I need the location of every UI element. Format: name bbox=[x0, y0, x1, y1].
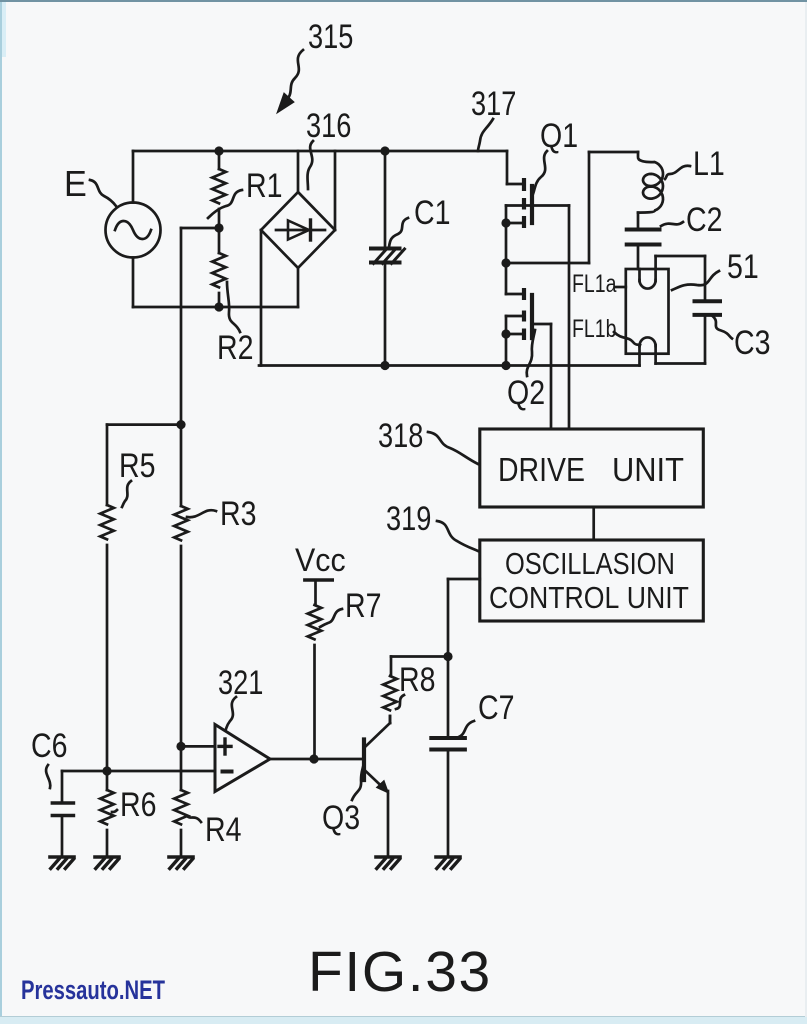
resistor R8 bbox=[383, 676, 397, 710]
inductor L1 bbox=[638, 152, 663, 213]
svg-text:R2: R2 bbox=[217, 329, 253, 367]
svg-text:FIG.33: FIG.33 bbox=[308, 940, 492, 1004]
svg-text:FL1b: FL1b bbox=[572, 315, 616, 343]
node R8-C7 junction bbox=[443, 652, 452, 661]
node Q2 source on rail bbox=[501, 361, 510, 370]
node junction R2 bottom bbox=[214, 302, 223, 311]
svg-text:R5: R5 bbox=[119, 447, 155, 485]
wire bottom rail bbox=[133, 306, 298, 309]
capacitor C6 bbox=[61, 771, 64, 803]
svg-text:Q3: Q3 bbox=[322, 799, 360, 837]
filament FL1a bbox=[638, 269, 641, 281]
svg-text:L1: L1 bbox=[693, 145, 725, 183]
node junction R1-R2 bbox=[214, 223, 223, 232]
svg-text:C1: C1 bbox=[414, 194, 450, 232]
svg-text:C2: C2 bbox=[686, 201, 722, 239]
svg-text:321: 321 bbox=[218, 663, 263, 702]
wire R5 branch bbox=[107, 423, 181, 426]
node junction R1 top bbox=[214, 146, 223, 155]
svg-text:R6: R6 bbox=[120, 786, 156, 824]
ground C6 bbox=[50, 855, 74, 859]
resistor R5 bbox=[100, 505, 114, 539]
svg-text:CONTROL UNIT: CONTROL UNIT bbox=[489, 581, 689, 615]
svg-text:FL1a: FL1a bbox=[572, 270, 617, 298]
svg-text:E: E bbox=[64, 164, 87, 204]
resistor R1 bbox=[218, 151, 221, 169]
op-amp 321 bbox=[215, 725, 270, 792]
ground C7 bbox=[436, 855, 460, 859]
wire node to sense bus bbox=[181, 227, 219, 230]
wire junction to C7 bbox=[447, 657, 450, 739]
svg-text:Q1: Q1 bbox=[540, 117, 578, 155]
svg-text:C3: C3 bbox=[734, 324, 770, 362]
drive unit 318 bbox=[480, 429, 704, 507]
ground Q3 bbox=[376, 855, 400, 859]
wire top rail bbox=[133, 150, 507, 153]
svg-text:319: 319 bbox=[386, 499, 431, 538]
svg-text:DRIVE: DRIVE bbox=[498, 451, 585, 488]
resistor R2 bbox=[218, 228, 221, 253]
node half-bridge midpoint bbox=[501, 258, 510, 267]
node junction C1 top bbox=[380, 146, 389, 155]
node output R7 junction bbox=[309, 754, 318, 763]
wire Q1 gate bus bbox=[568, 206, 571, 430]
svg-text:Vcc: Vcc bbox=[295, 542, 346, 578]
svg-text:317: 317 bbox=[471, 84, 516, 123]
svg-text:315: 315 bbox=[308, 17, 353, 56]
svg-text:316: 316 bbox=[306, 106, 351, 145]
svg-text:318: 318 bbox=[378, 416, 423, 455]
node R5 branch bbox=[176, 420, 185, 429]
ground R6 bbox=[95, 855, 119, 859]
wire source rail bbox=[259, 364, 640, 367]
transistor Q1 bbox=[506, 151, 509, 184]
node C1 bottom bbox=[380, 361, 389, 370]
resistor R4 bbox=[174, 790, 188, 824]
bridge rectifier 316 bbox=[261, 192, 335, 268]
capacitor C3 bbox=[695, 299, 721, 303]
svg-text:R4: R4 bbox=[205, 811, 241, 849]
wire lamp to C3 bbox=[656, 255, 705, 258]
svg-text:Pressauto.NET: Pressauto.NET bbox=[21, 975, 165, 1006]
transistor Q2 bbox=[505, 263, 508, 294]
svg-text:R7: R7 bbox=[345, 587, 381, 625]
wire opamp output bbox=[270, 758, 363, 761]
svg-text:OSCILLASION: OSCILLASION bbox=[505, 547, 675, 582]
resistor R6 bbox=[106, 771, 109, 790]
svg-text:UNIT: UNIT bbox=[612, 451, 684, 488]
svg-text:R8: R8 bbox=[399, 661, 435, 699]
capacitor C2 bbox=[627, 228, 660, 232]
wire sense bus bbox=[180, 425, 183, 506]
node Q1 source lead bbox=[501, 218, 510, 227]
wire FL1b to C3 bbox=[656, 362, 705, 365]
AC source E bbox=[106, 203, 161, 258]
wire midpoint to tank bbox=[506, 262, 589, 265]
svg-text:C7: C7 bbox=[478, 689, 514, 727]
svg-text:R3: R3 bbox=[220, 495, 256, 533]
wire control output bbox=[448, 578, 480, 581]
ground R4 bbox=[169, 855, 193, 859]
capacitor C7 bbox=[431, 736, 465, 740]
resistor R7 bbox=[308, 605, 322, 639]
svg-text:Q2: Q2 bbox=[507, 374, 545, 412]
oscillation control unit 319 bbox=[480, 540, 704, 621]
svg-text:51: 51 bbox=[727, 248, 759, 286]
wire junction to R8 bbox=[391, 655, 448, 658]
node Q2 source lead bbox=[501, 329, 510, 338]
capacitor C1 bbox=[384, 151, 387, 249]
filament FL1b bbox=[638, 345, 641, 366]
svg-text:C6: C6 bbox=[31, 727, 67, 765]
wire bridge to source rail bbox=[260, 230, 263, 366]
wire drive to control bbox=[592, 507, 595, 540]
wire Q2 gate bus bbox=[550, 324, 553, 429]
transistor Q3 bbox=[362, 740, 366, 781]
lamp 51 box bbox=[626, 269, 669, 354]
resistor R3 bbox=[174, 506, 188, 540]
svg-text:R1: R1 bbox=[246, 167, 282, 205]
node opamp plus input bbox=[176, 742, 185, 751]
node R5 wire on minus line bbox=[102, 766, 111, 775]
